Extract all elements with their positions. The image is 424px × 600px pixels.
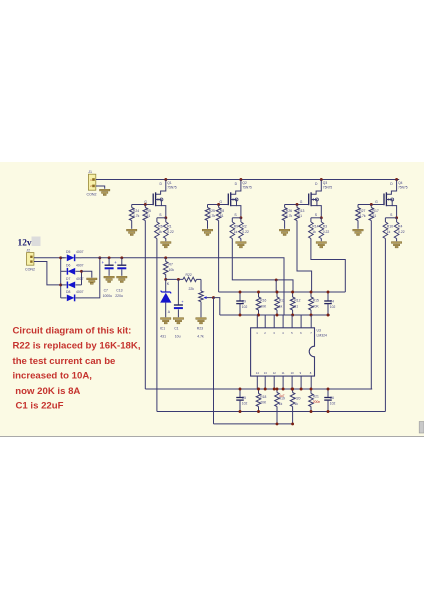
wire bus B sense bbox=[157, 411, 386, 413]
connector J2 CON2 bbox=[25, 249, 35, 272]
ground bridge bbox=[87, 278, 97, 284]
resistor R2 0.22 bbox=[239, 218, 249, 241]
svg-text:431: 431 bbox=[160, 335, 166, 339]
svg-text:Q1: Q1 bbox=[167, 181, 172, 185]
wire bridge bottom out bbox=[82, 258, 100, 298]
wire J2 pin1 bbox=[34, 257, 65, 259]
node busA stub bbox=[264, 388, 267, 391]
svg-text:Q2: Q2 bbox=[242, 181, 247, 185]
resistor R4 0.22 bbox=[394, 218, 404, 241]
svg-text:22k: 22k bbox=[189, 287, 195, 291]
svg-text:C6: C6 bbox=[330, 396, 334, 400]
ground J1 bbox=[100, 189, 110, 195]
node R15 bottom bbox=[310, 314, 313, 317]
capacitor C5 102 bbox=[236, 389, 247, 412]
svg-text:Circuit diagram of this kit:: Circuit diagram of this kit: bbox=[13, 326, 132, 337]
svg-text:1k: 1k bbox=[279, 402, 283, 406]
node busA stub bbox=[300, 388, 303, 391]
wire gate rail Q1 bbox=[132, 204, 154, 206]
node C6 busB bbox=[327, 410, 330, 413]
svg-text:4.7k: 4.7k bbox=[286, 214, 293, 218]
svg-text:1k: 1k bbox=[234, 230, 238, 234]
svg-text:4u7: 4u7 bbox=[279, 394, 285, 398]
resistor R18 bbox=[256, 389, 267, 412]
capacitor C6 102 bbox=[324, 389, 335, 412]
svg-text:102: 102 bbox=[330, 305, 336, 309]
wire source node Q2 bbox=[232, 217, 241, 219]
svg-text:U3: U3 bbox=[317, 329, 321, 333]
svg-text:4.7k: 4.7k bbox=[209, 214, 216, 218]
svg-text:20K: 20K bbox=[260, 401, 267, 405]
resistor R15 20K bbox=[309, 292, 320, 315]
resistor R1 0.22 bbox=[164, 218, 174, 241]
svg-text:220u: 220u bbox=[115, 294, 123, 298]
svg-text:75N75: 75N75 bbox=[398, 186, 408, 190]
wire Q3 source sense bbox=[311, 239, 345, 293]
node busA stub bbox=[282, 388, 285, 391]
node busA stub bbox=[273, 388, 276, 391]
node C5 busB bbox=[239, 410, 242, 413]
ground C13 bbox=[117, 276, 127, 282]
resistor R16 20K bbox=[256, 292, 267, 315]
wire bus A gate drive bbox=[145, 388, 372, 390]
svg-text:R22 is replaced by 16K-18K,: R22 is replaced by 16K-18K, bbox=[13, 341, 141, 352]
svg-text:4.7k: 4.7k bbox=[133, 214, 140, 218]
node R19 busC bbox=[276, 422, 279, 425]
svg-text:102: 102 bbox=[242, 305, 248, 309]
svg-text:1000u: 1000u bbox=[103, 294, 113, 298]
svg-text:D8: D8 bbox=[66, 290, 70, 294]
node bridge A2 bbox=[59, 283, 62, 286]
resistor R9 1k bbox=[230, 218, 238, 239]
transistor Q3 75N75 bbox=[300, 180, 333, 218]
svg-text:K: K bbox=[167, 282, 170, 286]
node R20 busA bbox=[291, 388, 294, 391]
wire opamp input rail top bbox=[219, 291, 346, 293]
svg-text:R7: R7 bbox=[169, 263, 173, 267]
transistor Q1 75N75 bbox=[144, 180, 177, 218]
node R12 bottom bbox=[291, 314, 294, 317]
wire Q1 gate drive bbox=[144, 221, 146, 390]
capacitor C4 102 bbox=[324, 292, 335, 315]
node G Q3 bbox=[296, 203, 299, 206]
wire 12V rail bbox=[82, 258, 285, 315]
svg-text:4.7k: 4.7k bbox=[359, 214, 366, 218]
node C9 bottom bbox=[239, 314, 242, 317]
node drain junction Q2 bbox=[239, 178, 242, 181]
label red mark bbox=[279, 394, 285, 398]
wire Q2 gate drive bbox=[218, 221, 220, 293]
ground C7 bbox=[104, 276, 114, 282]
node C4 bottom bbox=[327, 314, 330, 317]
resistor R11 1k bbox=[275, 292, 285, 315]
ground R25 bbox=[202, 229, 212, 235]
svg-text:51: 51 bbox=[298, 214, 302, 218]
svg-text:R23: R23 bbox=[197, 327, 203, 331]
svg-text:51: 51 bbox=[373, 214, 377, 218]
svg-text:Q4: Q4 bbox=[398, 181, 403, 185]
svg-text:10k: 10k bbox=[169, 268, 175, 272]
node S Q4 bbox=[395, 216, 398, 219]
wire Q3 gate drive bbox=[297, 221, 312, 293]
svg-text:D5: D5 bbox=[66, 250, 70, 254]
resistor R27 4.7k bbox=[356, 205, 366, 229]
wire bus C wiper bbox=[214, 423, 293, 425]
svg-text:IC1: IC1 bbox=[160, 327, 165, 331]
node busA stub bbox=[291, 388, 294, 391]
svg-text:1k: 1k bbox=[158, 230, 162, 234]
node R18 busA bbox=[257, 388, 260, 391]
node R16 bottom bbox=[257, 314, 260, 317]
svg-text:200n: 200n bbox=[313, 400, 321, 404]
node C7 rail bbox=[108, 256, 111, 259]
wire source node Q3 bbox=[311, 217, 321, 219]
ground R24 bbox=[127, 229, 137, 235]
svg-text:75N75: 75N75 bbox=[323, 186, 333, 190]
node G Q2 bbox=[217, 203, 220, 206]
ground R23 bbox=[196, 318, 206, 324]
svg-text:R22: R22 bbox=[186, 273, 192, 277]
svg-text:R3: R3 bbox=[323, 225, 327, 229]
node S Q1 bbox=[164, 216, 167, 219]
svg-text:51: 51 bbox=[220, 214, 224, 218]
svg-text:CON2: CON2 bbox=[25, 267, 35, 271]
svg-text:4.7k: 4.7k bbox=[197, 335, 204, 339]
svg-text:R12: R12 bbox=[294, 299, 300, 303]
svg-text:C5: C5 bbox=[242, 396, 246, 400]
ground R27 bbox=[353, 229, 363, 235]
wire source node Q4 bbox=[385, 217, 396, 219]
wire Q1 source sense bbox=[156, 239, 158, 412]
wire J1 pin2 bbox=[96, 186, 105, 189]
wire wiper right bbox=[214, 298, 220, 315]
node G Q1 bbox=[144, 203, 147, 206]
red annotation text bbox=[13, 326, 141, 412]
svg-text:51: 51 bbox=[147, 214, 151, 218]
diode D6 4007 bbox=[61, 263, 84, 274]
ground R2 bbox=[236, 242, 246, 248]
wire IC bottom pin stubs bbox=[257, 376, 311, 389]
node C13 rail bbox=[120, 256, 123, 259]
node C6 busA bbox=[327, 388, 330, 391]
svg-text:C1 is 22uF: C1 is 22uF bbox=[16, 401, 64, 412]
wire sense tap drop bbox=[275, 280, 277, 292]
svg-text:R27: R27 bbox=[359, 209, 365, 213]
resistor R19 1k bbox=[275, 389, 285, 424]
wire bridge right vertical bbox=[81, 271, 83, 285]
label 12v bbox=[18, 237, 41, 249]
svg-text:R21: R21 bbox=[313, 395, 319, 399]
node R11 top bbox=[276, 291, 279, 294]
resistor R25 4.7k bbox=[205, 205, 215, 229]
node C5 busA bbox=[239, 388, 242, 391]
svg-text:1k: 1k bbox=[387, 230, 391, 234]
node R21 busA bbox=[310, 388, 313, 391]
svg-text:CON2: CON2 bbox=[87, 193, 97, 197]
svg-text:now 20K is 8A: now 20K is 8A bbox=[15, 386, 80, 397]
resistor R8 51 bbox=[216, 205, 224, 221]
wire source node Q1 bbox=[157, 217, 166, 219]
svg-text:20K: 20K bbox=[313, 305, 320, 309]
svg-text:R17: R17 bbox=[373, 209, 379, 213]
diode D8 4007 bbox=[61, 290, 84, 301]
wire Q4 source sense bbox=[384, 239, 386, 412]
schematic background sheet bbox=[0, 162, 424, 437]
svg-text:R20: R20 bbox=[294, 397, 300, 401]
resistor R17 51 bbox=[369, 205, 379, 221]
svg-text:R9: R9 bbox=[234, 225, 238, 229]
svg-text:4007: 4007 bbox=[76, 277, 84, 281]
svg-text:51: 51 bbox=[294, 305, 298, 309]
resistor R3 0.22 bbox=[319, 218, 329, 241]
svg-text:10: 10 bbox=[291, 371, 295, 375]
svg-text:75N75: 75N75 bbox=[242, 186, 252, 190]
svg-text:12v: 12v bbox=[18, 239, 32, 249]
svg-text:J2: J2 bbox=[26, 249, 30, 253]
ground R26 bbox=[279, 229, 289, 235]
ground R1 bbox=[161, 242, 171, 248]
svg-text:J1: J1 bbox=[88, 170, 92, 174]
svg-text:102: 102 bbox=[242, 402, 248, 406]
svg-text:R11: R11 bbox=[279, 299, 285, 303]
svg-text:1k: 1k bbox=[279, 305, 283, 309]
transistor Q4 75N75 bbox=[375, 180, 408, 218]
svg-text:14: 14 bbox=[256, 371, 260, 375]
resistor R20 1k bbox=[290, 389, 300, 424]
capacitor C7 1000u bbox=[102, 258, 114, 298]
ground C1 bbox=[173, 318, 183, 324]
svg-text:C9: C9 bbox=[242, 300, 246, 304]
node C9 top bbox=[239, 291, 242, 294]
svg-text:increased to 10A,: increased to 10A, bbox=[13, 371, 93, 382]
node R12 top bbox=[291, 291, 294, 294]
svg-text:R16: R16 bbox=[260, 299, 266, 303]
node drain junction Q4 bbox=[395, 178, 398, 181]
resistor R24 4.7k bbox=[129, 205, 139, 229]
wire bridge to ground bbox=[82, 271, 92, 277]
diode D7 4007 bbox=[61, 277, 84, 288]
svg-text:C7: C7 bbox=[104, 289, 108, 293]
potentiometer R23 4.7k bbox=[197, 279, 214, 338]
svg-text:R14: R14 bbox=[312, 225, 318, 229]
wire K node bbox=[166, 278, 183, 280]
wire bus A right up bbox=[370, 388, 373, 390]
resistor R21 bbox=[309, 389, 321, 412]
svg-text:D7: D7 bbox=[66, 277, 70, 281]
svg-text:R4: R4 bbox=[398, 225, 402, 229]
resistor R14 1k bbox=[309, 218, 319, 239]
svg-text:20K: 20K bbox=[260, 305, 267, 309]
svg-text:G: G bbox=[300, 200, 303, 204]
svg-text:75N75: 75N75 bbox=[167, 186, 177, 190]
svg-text:D6: D6 bbox=[66, 263, 70, 267]
wire gate rail Q3 bbox=[285, 204, 309, 206]
resistor R13 51 bbox=[295, 205, 305, 221]
node wiper bbox=[212, 296, 215, 299]
ground R4 bbox=[391, 242, 401, 248]
node S Q3 bbox=[320, 216, 323, 219]
svg-text:11: 11 bbox=[282, 371, 285, 375]
node C4 top bbox=[327, 291, 330, 294]
svg-text:4007: 4007 bbox=[76, 250, 84, 254]
node drain junction Q3 bbox=[320, 178, 323, 181]
svg-text:R13: R13 bbox=[298, 209, 304, 213]
wire J2 pin2 bbox=[34, 262, 61, 285]
resistor R6 1k bbox=[155, 218, 163, 239]
node Q2 sense tap bbox=[275, 278, 278, 281]
ground IC1 bbox=[161, 318, 171, 324]
svg-text:the test current can be: the test current can be bbox=[13, 356, 116, 367]
ground R3 bbox=[316, 242, 326, 248]
svg-text:Q3: Q3 bbox=[323, 181, 328, 185]
capacitor C9 102 bbox=[236, 292, 247, 315]
node C1 tap bbox=[177, 278, 180, 281]
node R18 busB bbox=[257, 410, 260, 413]
node bridge K2 bbox=[80, 270, 83, 273]
wire Q4 gate drive bbox=[370, 221, 372, 390]
svg-text:R18: R18 bbox=[260, 395, 266, 399]
svg-text:4007: 4007 bbox=[76, 290, 84, 294]
svg-text:0.22: 0.22 bbox=[242, 230, 249, 234]
node R21 busB bbox=[310, 410, 313, 413]
node S Q2 bbox=[239, 216, 242, 219]
svg-text:C4: C4 bbox=[330, 300, 334, 304]
node G Q4 bbox=[370, 203, 373, 206]
resistor R12 51 bbox=[290, 292, 300, 315]
node R16 top bbox=[257, 291, 260, 294]
svg-text:R26: R26 bbox=[286, 209, 292, 213]
transistor Q2 75N75 bbox=[219, 180, 252, 218]
wire Q2 source sense bbox=[232, 239, 293, 293]
resistor R5 51 bbox=[143, 205, 151, 221]
svg-text:R24: R24 bbox=[133, 209, 139, 213]
resistor R26 4.7k bbox=[282, 205, 292, 229]
connector J1 CON2 bbox=[87, 170, 97, 196]
node K bbox=[164, 278, 170, 286]
svg-text:0.22: 0.22 bbox=[323, 230, 330, 234]
svg-text:R5: R5 bbox=[147, 209, 151, 213]
svg-text:0.22: 0.22 bbox=[398, 230, 405, 234]
node R19 busA bbox=[276, 388, 279, 391]
svg-text:R10: R10 bbox=[387, 225, 393, 229]
svg-text:C1: C1 bbox=[174, 327, 178, 331]
wire wiper down bbox=[213, 298, 215, 424]
scrollbar fragment bbox=[419, 422, 424, 434]
svg-text:R1: R1 bbox=[167, 225, 171, 229]
wire 12V drain bus bbox=[96, 179, 399, 181]
node bridge A1 bbox=[59, 256, 62, 259]
svg-text:4007: 4007 bbox=[76, 263, 84, 267]
capacitor C1 10u bbox=[174, 279, 184, 338]
diode D5 4007 bbox=[61, 250, 84, 261]
wire opamp input rail bottom bbox=[220, 314, 330, 316]
node R15 top bbox=[310, 291, 313, 294]
node R7 rail bbox=[164, 256, 167, 259]
resistor R10 1k bbox=[383, 218, 393, 239]
shunt regulator IC1 431 bbox=[160, 279, 172, 338]
svg-text:102: 102 bbox=[330, 402, 336, 406]
node R11 bottom bbox=[276, 314, 279, 317]
resistor R22 22k bbox=[183, 273, 201, 291]
svg-text:0.22: 0.22 bbox=[167, 230, 174, 234]
node R20 busC bbox=[291, 422, 294, 425]
svg-text:1k: 1k bbox=[294, 402, 298, 406]
wire IC top pin stubs bbox=[257, 315, 311, 328]
svg-text:1k: 1k bbox=[312, 230, 316, 234]
svg-text:R2: R2 bbox=[242, 225, 246, 229]
node rail tap1 bbox=[98, 256, 101, 259]
svg-text:R15: R15 bbox=[313, 299, 319, 303]
capacitor C13 220u bbox=[114, 258, 126, 298]
svg-text:G: G bbox=[375, 200, 378, 204]
svg-text:C13: C13 bbox=[116, 289, 122, 293]
svg-text:R8: R8 bbox=[220, 209, 224, 213]
wire gate rail Q4 bbox=[358, 204, 384, 206]
svg-text:10u: 10u bbox=[175, 335, 181, 339]
resistor R7 10k bbox=[163, 258, 174, 280]
svg-text:12: 12 bbox=[273, 371, 277, 375]
wire bridge left vertical bbox=[60, 258, 62, 298]
svg-text:LM324: LM324 bbox=[317, 334, 327, 338]
svg-text:R25: R25 bbox=[209, 209, 215, 213]
svg-text:G: G bbox=[219, 200, 222, 204]
op-amp U3 LM324 bbox=[251, 328, 327, 376]
svg-text:13: 13 bbox=[264, 371, 268, 375]
wire gate rail Q2 bbox=[208, 204, 229, 206]
svg-text:R6: R6 bbox=[158, 225, 162, 229]
node drain junction Q1 bbox=[164, 178, 167, 181]
